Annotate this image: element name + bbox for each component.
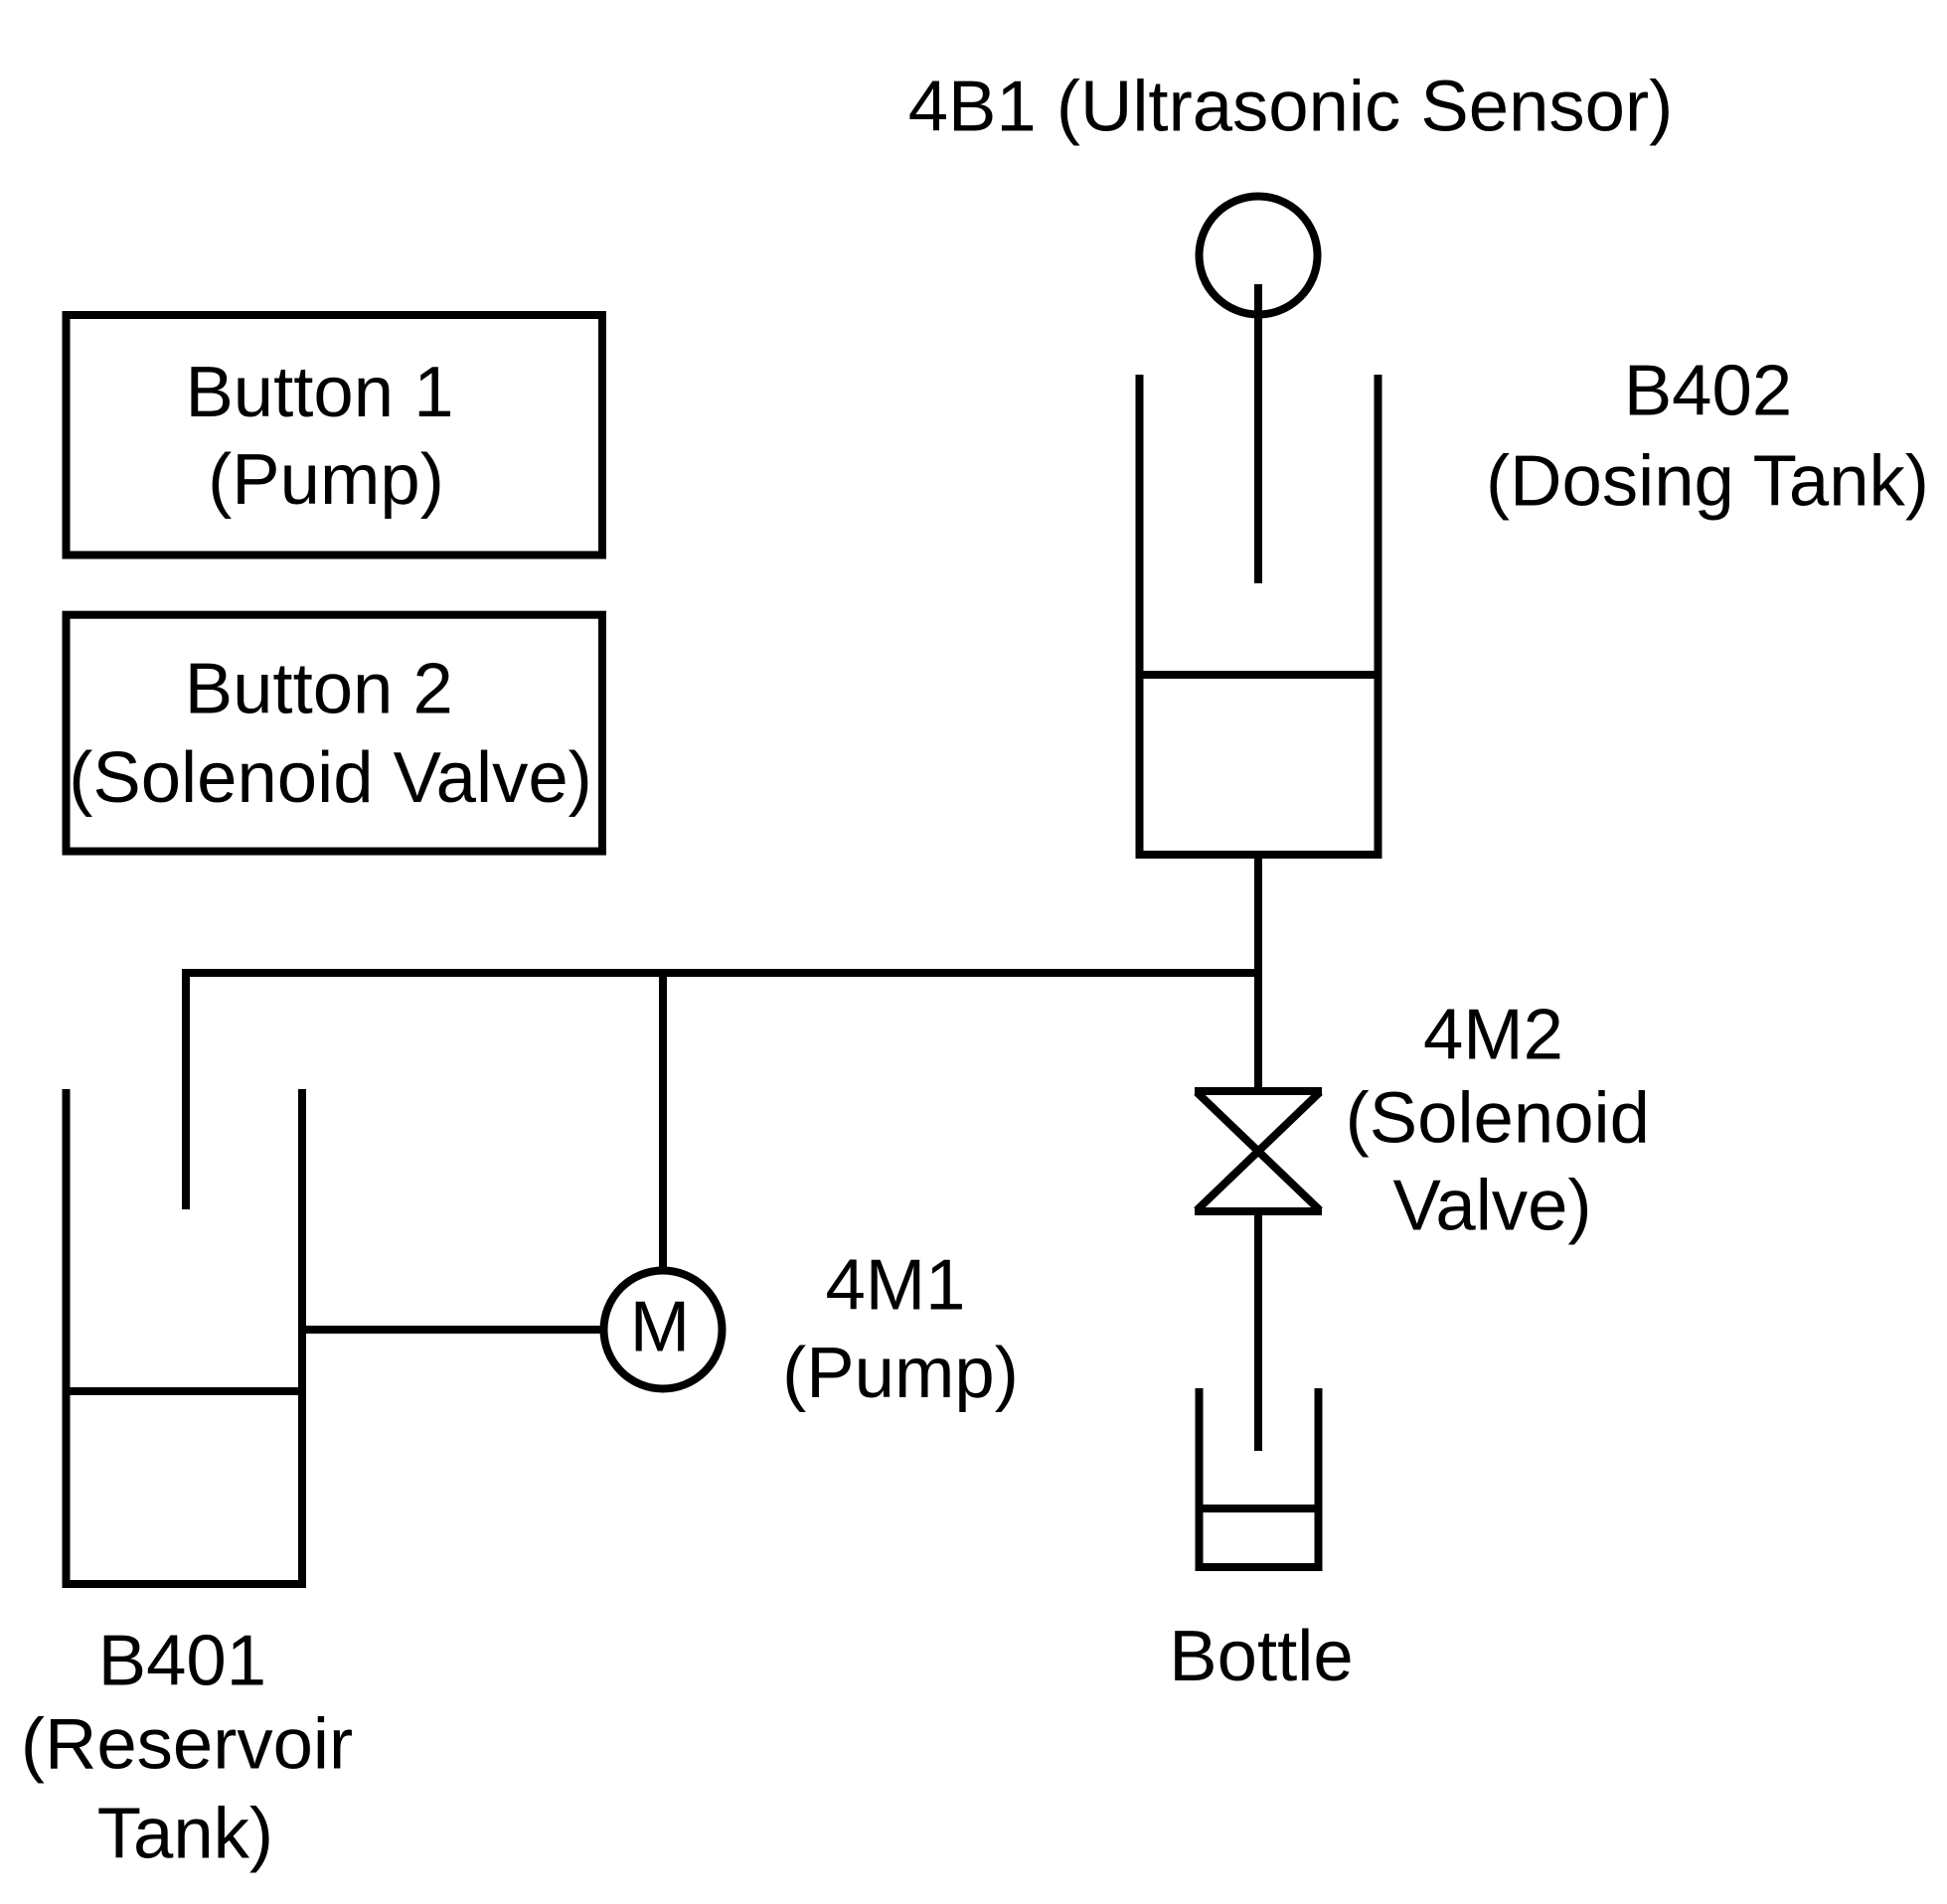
svg-text:(Solenoid: (Solenoid xyxy=(1346,1078,1650,1159)
svg-text:4M1: 4M1 xyxy=(825,1245,965,1326)
svg-text:(Solenoid Valve): (Solenoid Valve) xyxy=(69,737,592,818)
svg-text:Valve): Valve) xyxy=(1392,1166,1591,1246)
svg-text:Button 2: Button 2 xyxy=(185,649,453,729)
svg-text:M: M xyxy=(630,1286,690,1366)
svg-text:4B1 (Ultrasonic Sensor): 4B1 (Ultrasonic Sensor) xyxy=(908,66,1674,146)
svg-text:Button 1: Button 1 xyxy=(185,352,453,432)
svg-text:(Dosing Tank): (Dosing Tank) xyxy=(1486,440,1929,521)
svg-text:Tank): Tank) xyxy=(97,1794,273,1874)
svg-text:(Pump): (Pump) xyxy=(782,1333,1019,1413)
svg-text:(Reservoir: (Reservoir xyxy=(21,1704,353,1785)
svg-text:(Pump): (Pump) xyxy=(208,439,444,520)
svg-text:4M2: 4M2 xyxy=(1423,994,1563,1074)
svg-text:B402: B402 xyxy=(1624,351,1792,431)
svg-text:B401: B401 xyxy=(98,1621,266,1701)
svg-text:Bottle: Bottle xyxy=(1169,1616,1353,1696)
